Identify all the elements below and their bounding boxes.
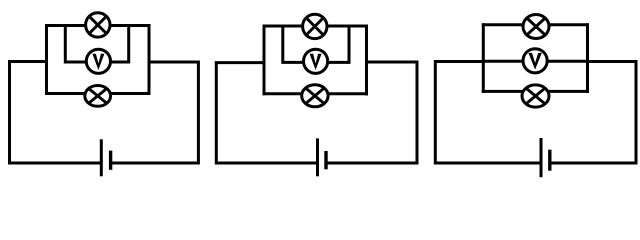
voltmeter V2 (circuit 2) [304,49,328,73]
voltmeter V3 (circuit 3) [523,49,547,73]
lamp L2 (circuit 1 bottom) [85,86,111,107]
node: right bus wire (circuit 3) [586,23,589,93]
cell B3 [541,138,550,177]
wire bottom branch (circuit 3) [482,90,589,93]
cell B1 [101,139,110,176]
wire bottom branch (circuit 1) [45,92,151,95]
node: left bus wire (circuit 3) [482,23,485,93]
node: left bus wire (circuit 1) [45,24,48,95]
wire top branch (circuit 2) [263,25,369,28]
lamp L3 (circuit 2 top) [303,14,327,38]
voltmeter V1 (circuit 1) [86,49,110,73]
wire outer right + bottom-right (circuit 2) [328,62,418,163]
lamp L1 (circuit 1 top) [86,13,110,37]
cell B2 [318,138,327,176]
node: right bus wire (circuit 1) [148,24,151,95]
wire outer left + bottom-left (circuit 3) [435,62,539,164]
node: left bus wire (circuit 2) [263,25,266,96]
wire top branch (circuit 1) [45,24,151,27]
wire voltmeter branch with stubs (circuit 1) [65,25,128,63]
lamp L4 (circuit 2 bottom) [302,85,328,107]
wire outer left + bottom-left (circuit 1) [10,62,101,164]
wire outer right + bottom-right (circuit 1) [112,62,198,163]
wire voltmeter row through (circuit 3) [483,60,587,63]
lamp L6 (circuit 3 bottom) [522,85,549,107]
wire top branch (circuit 3) [482,23,589,26]
wire voltmeter branch with stubs (circuit 2) [283,25,349,62]
wire outer left + bottom-left (circuit 2) [216,63,316,163]
lamp L5 (circuit 3 top) [523,15,549,39]
node: right bus wire (circuit 2) [365,25,368,96]
wire bottom branch (circuit 2) [263,92,369,95]
wire outer right + bottom-right (circuit 3) [551,62,636,164]
